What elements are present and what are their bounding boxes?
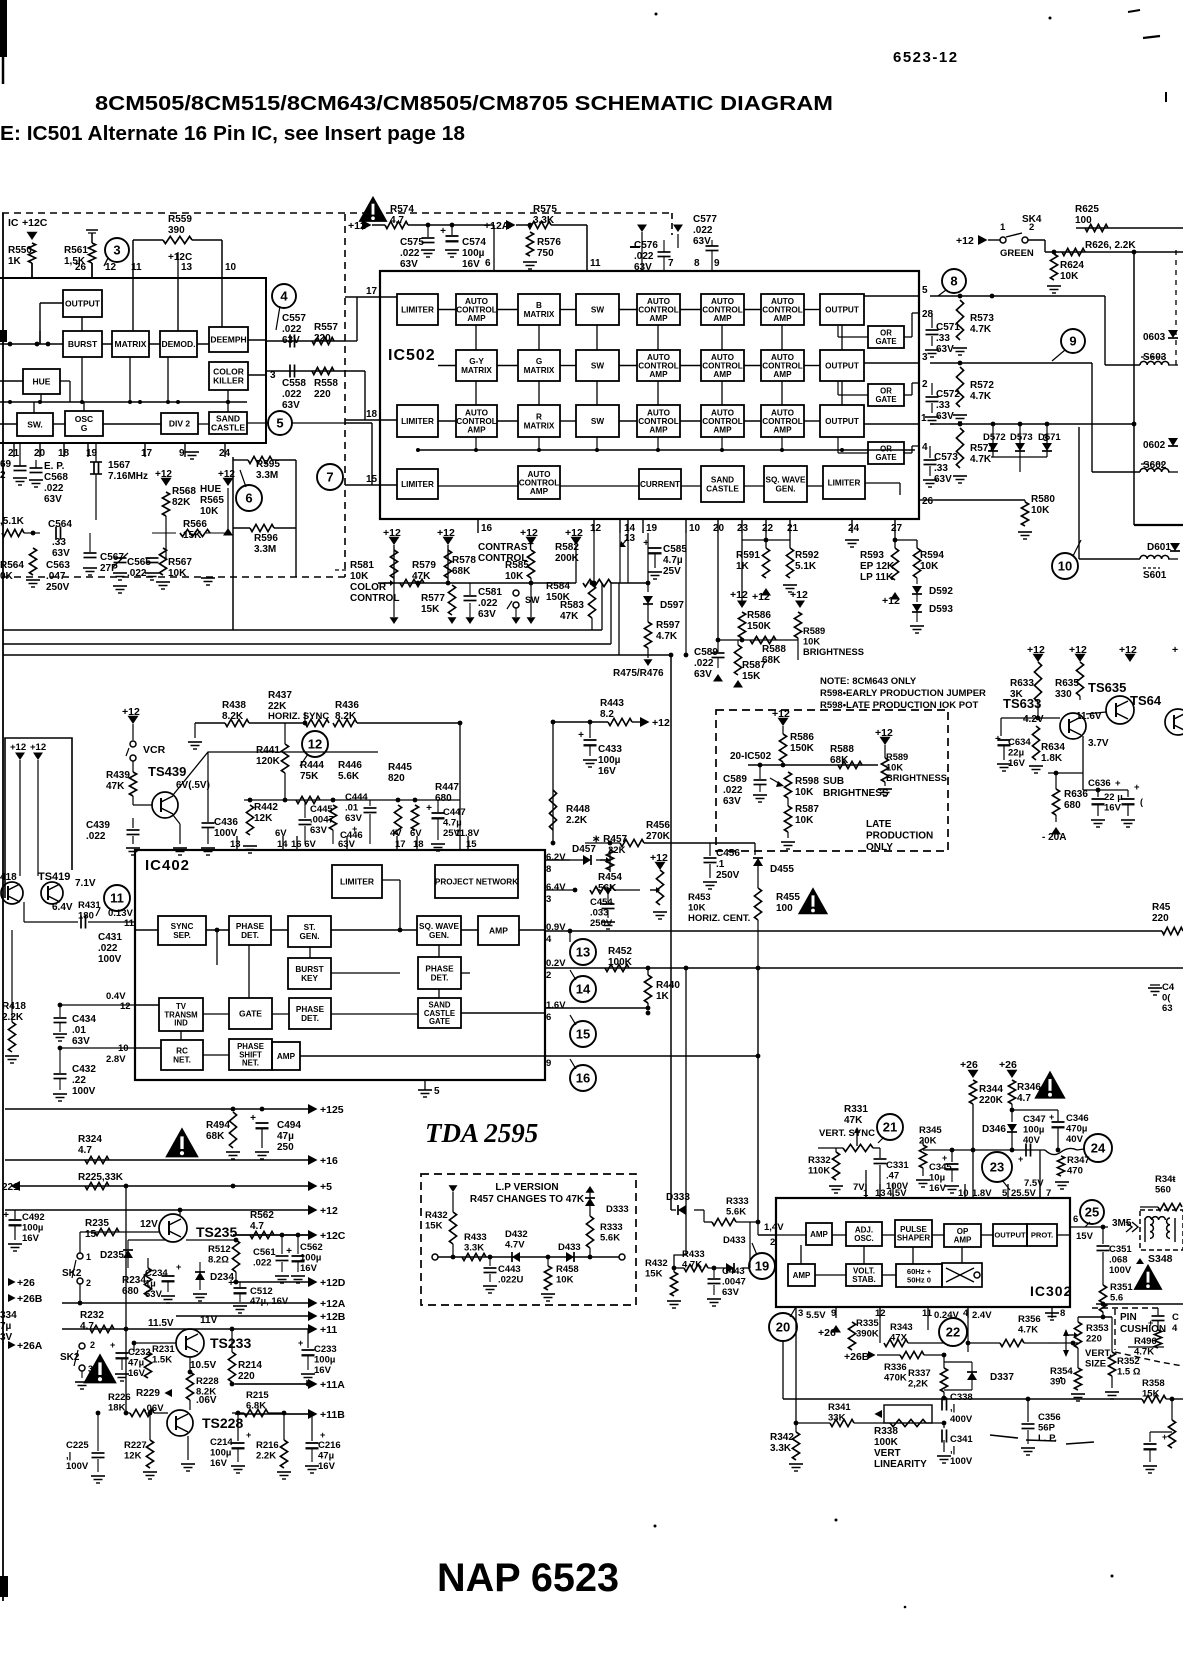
svg-text:+12: +12 [10, 742, 26, 753]
svg-text:.01: .01 [72, 1025, 86, 1036]
svg-text:PHASE: PHASE [425, 965, 454, 974]
svg-text:63V: 63V [936, 344, 954, 355]
svg-text:16V: 16V [598, 766, 616, 777]
svg-text:16V: 16V [300, 1263, 318, 1274]
svg-text:.0047: .0047 [310, 815, 334, 826]
svg-text:3: 3 [113, 243, 120, 258]
svg-text:.022: .022 [723, 785, 743, 796]
svg-text:1K: 1K [656, 991, 670, 1002]
svg-text:C589: C589 [723, 774, 747, 785]
svg-text:BRIGHTNESS: BRIGHTNESS [803, 647, 864, 657]
svg-text:R494: R494 [206, 1120, 230, 1131]
svg-text:+: + [110, 1340, 115, 1350]
svg-text:+: + [228, 1278, 234, 1289]
svg-text:NAP 6523: NAP 6523 [437, 1556, 619, 1600]
svg-text:AUTO: AUTO [465, 297, 489, 306]
svg-text:220: 220 [314, 389, 331, 400]
svg-text:D333: D333 [666, 1192, 690, 1203]
svg-text:13: 13 [624, 533, 636, 544]
svg-text:BURST: BURST [295, 965, 323, 974]
svg-text:R227: R227 [124, 1440, 147, 1451]
svg-text:LATE: LATE [866, 819, 892, 830]
svg-text:+26A: +26A [17, 1340, 43, 1352]
svg-text:R595: R595 [256, 459, 280, 470]
svg-text:23: 23 [737, 523, 749, 534]
svg-text:IC402: IC402 [145, 857, 190, 874]
svg-text:2: 2 [86, 1278, 91, 1288]
svg-text:2: 2 [90, 1340, 95, 1350]
svg-text:1: 1 [1000, 222, 1006, 233]
svg-text:6: 6 [485, 258, 491, 269]
svg-text:.022: .022 [694, 658, 714, 669]
svg-text:C443: C443 [498, 1264, 521, 1275]
svg-text:CASTLE: CASTLE [211, 423, 245, 433]
svg-text:100µ: 100µ [1023, 1125, 1044, 1136]
svg-text:4.7K: 4.7K [970, 454, 992, 465]
svg-text:+16: +16 [320, 1155, 338, 1167]
svg-text:250: 250 [277, 1142, 294, 1153]
svg-text:C574: C574 [462, 237, 486, 248]
svg-text:68K: 68K [452, 566, 471, 577]
svg-text:+12: +12 [122, 706, 140, 718]
svg-text:4V: 4V [390, 828, 402, 839]
svg-text:AMP: AMP [467, 426, 486, 435]
svg-text:SEP.: SEP. [173, 931, 191, 940]
svg-text:47µ: 47µ [318, 1451, 334, 1462]
svg-text:PIN: PIN [1120, 1312, 1137, 1323]
svg-text:R441: R441 [256, 745, 280, 756]
svg-text:SW: SW [591, 305, 604, 314]
svg-text:C573: C573 [934, 452, 958, 463]
svg-text:20-IC502: 20-IC502 [730, 751, 772, 762]
svg-text:R354: R354 [1050, 1366, 1073, 1377]
svg-text:R457 CHANGES TO 47K: R457 CHANGES TO 47K [470, 1194, 585, 1205]
svg-text:CONTROL: CONTROL [762, 361, 802, 370]
svg-text:OUTPUT: OUTPUT [994, 1231, 1026, 1240]
svg-text:75K: 75K [300, 771, 319, 782]
svg-text:AMP: AMP [530, 487, 549, 496]
svg-text:DET.: DET. [301, 1014, 319, 1023]
svg-text:E. P.: E. P. [44, 461, 65, 472]
svg-text:1K: 1K [8, 256, 22, 267]
svg-text:OUTPUT: OUTPUT [825, 361, 859, 370]
svg-text:STAB.: STAB. [852, 1275, 875, 1284]
svg-text:10K: 10K [505, 571, 524, 582]
svg-text:470K: 470K [884, 1373, 907, 1384]
svg-text:+12D: +12D [320, 1277, 346, 1289]
svg-text:R588: R588 [830, 744, 854, 755]
svg-text:C561: C561 [253, 1247, 276, 1258]
svg-text:G: G [81, 423, 88, 433]
svg-text:R431: R431 [78, 900, 101, 911]
svg-text:150K: 150K [790, 743, 815, 754]
svg-text:2.4V: 2.4V [972, 1310, 992, 1321]
svg-text:8: 8 [694, 258, 700, 269]
svg-text:R454: R454 [598, 872, 622, 883]
svg-text:D455: D455 [770, 864, 794, 875]
svg-text:+12: +12 [383, 527, 401, 539]
svg-text:.022: .022 [282, 324, 302, 335]
svg-text:LIMITER: LIMITER [828, 478, 861, 487]
svg-text:17: 17 [141, 448, 153, 459]
svg-text:+12: +12 [30, 742, 46, 753]
svg-text:C225: C225 [66, 1440, 89, 1451]
svg-text:C581: C581 [478, 587, 502, 598]
svg-text:3M5: 3M5 [1112, 1218, 1132, 1229]
svg-text:330: 330 [1055, 689, 1072, 700]
svg-text:IND: IND [174, 1019, 188, 1028]
svg-text:3: 3 [922, 352, 928, 363]
svg-text:C456: C456 [716, 848, 740, 859]
svg-text:R358: R358 [1142, 1378, 1165, 1389]
svg-text:10K: 10K [795, 787, 814, 798]
svg-text:SYNC: SYNC [171, 922, 194, 931]
svg-text:+12: +12 [882, 595, 900, 607]
svg-text:16V: 16V [314, 1365, 332, 1376]
svg-text:C214: C214 [210, 1437, 233, 1448]
svg-text:+: + [1115, 778, 1121, 789]
svg-text:MATRIX: MATRIX [524, 421, 555, 430]
svg-text:12K: 12K [124, 1451, 142, 1462]
svg-text:AUTO: AUTO [771, 297, 795, 306]
svg-text:C233: C233 [314, 1344, 337, 1355]
svg-text:10K: 10K [1060, 271, 1079, 282]
svg-text:D601: D601 [1147, 542, 1171, 553]
svg-text:R475/R476: R475/R476 [613, 668, 664, 679]
svg-text:4: 4 [1172, 1323, 1178, 1334]
svg-text:25V: 25V [663, 566, 681, 577]
svg-text:0(: 0( [1162, 993, 1171, 1004]
svg-text:9: 9 [714, 258, 720, 269]
svg-text:R442: R442 [254, 802, 278, 813]
svg-text:+: + [1172, 644, 1178, 656]
svg-text:D597: D597 [660, 600, 684, 611]
svg-text:AUTO: AUTO [711, 353, 735, 362]
svg-text:2,2K: 2,2K [908, 1379, 928, 1390]
svg-text:R336: R336 [884, 1362, 907, 1373]
svg-text:BRIGHTNESS: BRIGHTNESS [823, 788, 889, 799]
svg-text:VERT: VERT [874, 1448, 901, 1459]
svg-text:R344: R344 [979, 1084, 1003, 1095]
svg-text:PROT.: PROT. [1031, 1231, 1053, 1240]
svg-text:R626, 2.2K: R626, 2.2K [1085, 240, 1136, 251]
svg-text:R580: R580 [1031, 494, 1055, 505]
svg-text:12: 12 [120, 1001, 131, 1012]
svg-text:R337: R337 [908, 1368, 931, 1379]
svg-text:D571: D571 [1038, 432, 1061, 443]
svg-text:10: 10 [958, 1188, 969, 1199]
svg-text:4.7K: 4.7K [1134, 1347, 1154, 1358]
svg-text:CONTROL: CONTROL [456, 305, 496, 314]
svg-text:15: 15 [576, 1027, 590, 1042]
svg-text:R432: R432 [645, 1258, 668, 1269]
svg-text:GREEN: GREEN [1000, 248, 1034, 259]
svg-text:334: 334 [0, 1310, 17, 1321]
svg-text:110K: 110K [808, 1166, 830, 1177]
svg-text:R585: R585 [505, 560, 529, 571]
svg-text:R594: R594 [920, 550, 944, 561]
svg-text:C564: C564 [48, 519, 72, 530]
svg-text:100V: 100V [950, 1456, 973, 1467]
svg-text:AUTO: AUTO [711, 297, 735, 306]
svg-text:24: 24 [1091, 1141, 1106, 1156]
svg-text:R578: R578 [452, 555, 476, 566]
svg-text:+11B: +11B [320, 1409, 345, 1421]
svg-text:3.7V: 3.7V [1088, 738, 1109, 749]
svg-text:+12: +12 [790, 589, 808, 601]
svg-text:5: 5 [276, 416, 283, 431]
svg-text:C557: C557 [282, 313, 306, 324]
svg-text:63: 63 [1162, 1003, 1173, 1014]
svg-text:13: 13 [230, 839, 241, 850]
svg-text:11: 11 [922, 1308, 933, 1319]
svg-text:10K: 10K [920, 561, 939, 572]
svg-text:9: 9 [546, 1058, 551, 1069]
svg-text:R576: R576 [537, 237, 561, 248]
svg-text:AMP: AMP [954, 1236, 972, 1245]
svg-text:120K: 120K [256, 756, 281, 767]
svg-text:R624: R624 [1060, 260, 1084, 271]
svg-text:7µ: 7µ [0, 1321, 12, 1332]
svg-text:R625: R625 [1075, 204, 1099, 215]
svg-text:C433: C433 [598, 744, 622, 755]
svg-text:R333: R333 [726, 1196, 749, 1207]
svg-text:R564: R564 [0, 560, 24, 571]
svg-text:10: 10 [225, 262, 237, 273]
svg-text:CONTROL: CONTROL [702, 417, 742, 426]
svg-text:R353: R353 [1086, 1323, 1109, 1334]
svg-text:2.2K: 2.2K [2, 1012, 24, 1023]
svg-text:100V: 100V [72, 1086, 96, 1097]
svg-text:AMP: AMP [793, 1271, 811, 1280]
svg-text:560: 560 [1155, 1185, 1171, 1196]
svg-text:R331: R331 [844, 1104, 868, 1115]
svg-text:AMP: AMP [713, 370, 732, 379]
svg-text:63V: 63V [145, 1289, 163, 1300]
svg-text:VCR: VCR [143, 744, 166, 756]
svg-text:C562: C562 [300, 1242, 323, 1253]
svg-text:R333: R333 [600, 1222, 623, 1233]
svg-text:14: 14 [576, 982, 591, 997]
svg-text:16V: 16V [128, 1368, 146, 1379]
svg-text:1,4V: 1,4V [764, 1222, 784, 1233]
svg-text:SW: SW [591, 361, 604, 370]
svg-text:250V: 250V [716, 870, 740, 881]
svg-text:R586: R586 [790, 732, 814, 743]
svg-text:47µ: 47µ [128, 1358, 144, 1369]
svg-text:100µ: 100µ [598, 755, 621, 766]
svg-text:GEN.: GEN. [299, 932, 319, 941]
svg-text:R226: R226 [108, 1392, 131, 1403]
svg-text:9: 9 [831, 1308, 836, 1319]
svg-text:0603: 0603 [1143, 332, 1166, 343]
svg-text:4: 4 [546, 934, 552, 945]
svg-text:4.7: 4.7 [250, 1221, 264, 1232]
svg-text:CONTROL: CONTROL [456, 417, 496, 426]
svg-text:.022: .022 [98, 943, 118, 954]
svg-text:C576: C576 [634, 240, 658, 251]
svg-text:27: 27 [891, 523, 903, 534]
svg-text:25: 25 [1085, 1205, 1099, 1220]
svg-text:R345: R345 [919, 1125, 942, 1136]
svg-text:R634: R634 [1041, 742, 1065, 753]
svg-text:PHASE: PHASE [296, 1005, 325, 1014]
svg-text:10K: 10K [795, 815, 814, 826]
svg-text:15K: 15K [421, 604, 440, 615]
svg-text:R550: R550 [8, 245, 32, 256]
svg-text:10K: 10K [200, 506, 219, 517]
svg-text:221: 221 [2, 1182, 19, 1193]
svg-text:22: 22 [762, 523, 774, 534]
svg-text:1.8K: 1.8K [1041, 753, 1063, 764]
svg-text:6: 6 [546, 1012, 551, 1023]
svg-text:6: 6 [245, 491, 252, 506]
svg-text:8: 8 [546, 864, 551, 875]
svg-text:CONTROL: CONTROL [762, 305, 802, 314]
svg-text:ONLY: ONLY [866, 842, 893, 853]
svg-text:63V: 63V [345, 813, 363, 824]
svg-text:1.8V: 1.8V [972, 1188, 992, 1199]
svg-text:+12: +12 [752, 591, 770, 603]
svg-text:+12: +12 [772, 708, 790, 720]
svg-text:CONTROL: CONTROL [638, 361, 678, 370]
svg-text:18: 18 [413, 839, 424, 850]
svg-text:C432: C432 [72, 1064, 96, 1075]
svg-text:2.8V: 2.8V [106, 1054, 126, 1065]
svg-text:100µ: 100µ [22, 1223, 43, 1234]
svg-text:+: + [176, 1262, 181, 1272]
svg-text:12: 12 [105, 262, 117, 273]
svg-text:12K: 12K [254, 813, 273, 824]
svg-text:8: 8 [1060, 1308, 1065, 1319]
svg-text:R448: R448 [566, 804, 590, 815]
svg-text:21: 21 [883, 1120, 897, 1135]
svg-text:R597: R597 [656, 620, 680, 631]
svg-text:63V: 63V [934, 474, 952, 485]
svg-text:4.7: 4.7 [390, 215, 404, 226]
svg-text:DET.: DET. [431, 973, 449, 982]
svg-text:R343: R343 [890, 1322, 913, 1333]
svg-text:4.7K: 4.7K [1018, 1325, 1038, 1336]
svg-text:GATE: GATE [875, 395, 896, 404]
svg-text:6523-12: 6523-12 [893, 49, 959, 66]
svg-text:100V: 100V [66, 1461, 89, 1472]
svg-text:3.3M: 3.3M [256, 470, 278, 481]
svg-text:5: 5 [1002, 1188, 1008, 1199]
svg-text:B: B [536, 301, 542, 310]
svg-text:2.2K: 2.2K [256, 1451, 276, 1462]
svg-text:C444: C444 [345, 792, 368, 803]
svg-text:SQ. WAVE: SQ. WAVE [419, 922, 459, 931]
svg-text:C434: C434 [72, 1014, 96, 1025]
svg-text:63V: 63V [72, 1036, 90, 1047]
svg-text:16: 16 [576, 1071, 590, 1086]
svg-text:3.3K: 3.3K [770, 1443, 792, 1454]
svg-text:+: + [1134, 782, 1140, 793]
svg-text:PRODUCTION: PRODUCTION [866, 831, 933, 842]
svg-text:OUTPUT: OUTPUT [65, 299, 101, 309]
svg-text:390: 390 [1050, 1377, 1066, 1388]
svg-text:R228: R228 [196, 1376, 219, 1387]
svg-text:R581: R581 [350, 560, 374, 571]
svg-text:6.4V: 6.4V [52, 902, 73, 913]
svg-text:+26B: +26B [844, 1351, 870, 1363]
svg-text:5.5V: 5.5V [806, 1310, 826, 1321]
svg-text:+12A: +12A [484, 220, 510, 232]
svg-text:470: 470 [1067, 1166, 1083, 1177]
svg-text:C447: C447 [443, 807, 466, 818]
svg-text:16V: 16V [1104, 803, 1122, 814]
svg-text:HUE: HUE [200, 484, 221, 495]
svg-text:R577: R577 [421, 593, 445, 604]
svg-text:AUTO: AUTO [647, 408, 671, 417]
svg-text:GEN.: GEN. [429, 931, 449, 940]
svg-text:SAND: SAND [711, 476, 734, 485]
svg-text:R445: R445 [388, 762, 412, 773]
svg-text:+12: +12 [520, 527, 538, 539]
svg-text:5.6: 5.6 [1110, 1293, 1123, 1304]
svg-text:D573: D573 [1010, 432, 1033, 443]
svg-text:R446: R446 [338, 760, 362, 771]
svg-text:R351: R351 [1110, 1282, 1133, 1293]
svg-text:6.2V: 6.2V [546, 852, 566, 863]
svg-text:+: + [298, 1338, 303, 1348]
svg-text:21: 21 [787, 523, 799, 534]
svg-text:24: 24 [848, 523, 860, 534]
svg-text:AUTO: AUTO [771, 353, 795, 362]
svg-text:D457: D457 [572, 844, 596, 855]
svg-text:+11A: +11A [320, 1379, 345, 1391]
svg-text:AUTO: AUTO [647, 353, 671, 362]
svg-text:GEN.: GEN. [775, 484, 795, 493]
svg-text:CONTROL: CONTROL [350, 593, 399, 604]
svg-text:SIZE: SIZE [1085, 1359, 1106, 1370]
svg-text:R356: R356 [1018, 1314, 1041, 1325]
svg-text:11V: 11V [200, 1315, 218, 1326]
svg-text:26: 26 [922, 496, 934, 507]
svg-text:C345: C345 [929, 1162, 952, 1173]
svg-text:5.6K: 5.6K [726, 1207, 746, 1218]
svg-text:.33: .33 [936, 333, 950, 344]
svg-text:CONTROL: CONTROL [702, 361, 742, 370]
svg-text:R496: R496 [1134, 1336, 1157, 1347]
svg-text:12: 12 [308, 737, 322, 752]
svg-text:5: 5 [434, 1086, 440, 1097]
svg-text:220: 220 [1152, 913, 1169, 924]
svg-text:8.2: 8.2 [600, 709, 614, 720]
svg-text:+12: +12 [1027, 644, 1045, 656]
svg-text:C575: C575 [400, 237, 424, 248]
svg-text:AMP: AMP [649, 370, 668, 379]
svg-text:.01: .01 [345, 803, 359, 814]
svg-text:CONTROL: CONTROL [638, 417, 678, 426]
svg-text:R347: R347 [1067, 1155, 1090, 1166]
svg-text:GATE: GATE [875, 453, 896, 462]
svg-text:9: 9 [179, 448, 185, 459]
svg-text:1,5K: 1,5K [64, 256, 86, 267]
svg-text:D346: D346 [982, 1124, 1006, 1135]
svg-text:R636: R636 [1064, 789, 1088, 800]
svg-text:250V: 250V [590, 918, 613, 929]
svg-text:+: + [3, 1210, 9, 1221]
svg-text:R229: R229 [136, 1388, 160, 1399]
svg-text:BRIGHTNESS: BRIGHTNESS [886, 773, 947, 783]
svg-text:8: 8 [950, 274, 957, 289]
svg-text:R589: R589 [803, 626, 825, 636]
svg-text:6V: 6V [275, 828, 287, 839]
svg-text:10.5V: 10.5V [190, 1360, 216, 1371]
svg-text:R587: R587 [742, 660, 766, 671]
